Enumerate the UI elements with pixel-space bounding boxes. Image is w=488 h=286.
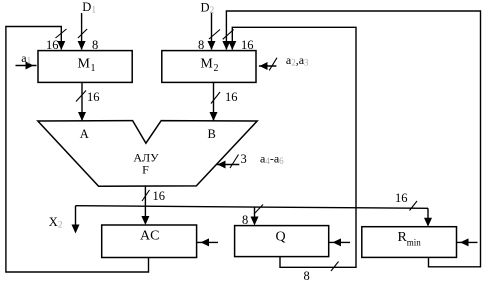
svg-text:16: 16 bbox=[395, 191, 408, 205]
svg-text:16: 16 bbox=[225, 90, 238, 104]
svg-text:A: A bbox=[80, 127, 89, 141]
wire Q right control stub bbox=[329, 241, 350, 243]
svg-text:16: 16 bbox=[153, 189, 166, 203]
register Rmin bbox=[362, 227, 457, 258]
slash on feedback wires into M2 bbox=[223, 30, 234, 40]
svg-text:min: min bbox=[407, 238, 422, 248]
wire AC input branch bbox=[144, 206, 146, 218]
svg-text:8: 8 bbox=[242, 213, 248, 227]
arrowhead a2,a3 into M2 bbox=[260, 62, 268, 70]
wire Rmin right control stub bbox=[457, 241, 478, 243]
arrowhead D1 into M1 bbox=[78, 41, 86, 50]
arrowhead 16-bit into M1 bbox=[57, 41, 65, 50]
svg-text:8: 8 bbox=[304, 269, 310, 283]
wire Rmin input branch bbox=[427, 208, 429, 219]
slash on Q feedback 8-bit wire bbox=[331, 262, 339, 272]
svg-text:1: 1 bbox=[91, 63, 96, 74]
wire ALU a4-a6 control input bbox=[217, 164, 239, 166]
svg-text:16: 16 bbox=[87, 90, 100, 104]
wire AC right control stub bbox=[197, 241, 218, 243]
wire D2 input bbox=[211, 13, 213, 50]
arrowhead M2 output into ALU B bbox=[210, 112, 218, 121]
wire a2,a3 control input bbox=[259, 65, 277, 67]
slash on a2,a3 wire bbox=[269, 58, 277, 71]
slash on D1 wire bbox=[78, 29, 87, 38]
svg-text:AC: AC bbox=[140, 229, 159, 244]
register AC bbox=[102, 225, 197, 258]
arrowhead control into Q right bbox=[333, 238, 342, 246]
svg-text:8: 8 bbox=[198, 38, 204, 52]
arrowhead ALU result into AC bbox=[141, 216, 149, 225]
slash on ALU output bbox=[142, 190, 150, 201]
register M1 bbox=[38, 51, 132, 83]
arrowhead control into AC right bbox=[201, 238, 210, 246]
arrowhead Rmin-feedback into M2 bbox=[222, 41, 230, 50]
wire M1 output to ALU A bbox=[81, 82, 83, 120]
wire result bus bbox=[76, 206, 429, 209]
slash on M1 output bbox=[76, 91, 86, 102]
svg-text:16: 16 bbox=[241, 38, 254, 52]
svg-text:3: 3 bbox=[241, 152, 247, 166]
wire ALU F output bbox=[144, 186, 146, 206]
wire M2 output to ALU B bbox=[213, 82, 215, 120]
arrowhead result into Rmin bbox=[424, 218, 432, 227]
slash on a4-a6 wire bbox=[230, 155, 239, 169]
arrowhead a4-a6 into ALU bbox=[218, 161, 226, 169]
register Q bbox=[235, 226, 329, 257]
slash on Q input branch bbox=[254, 205, 263, 215]
svg-text:M: M bbox=[78, 56, 91, 71]
arrowhead a1 into M1 bbox=[26, 62, 34, 70]
arrowhead Q-feedback into M2 bbox=[228, 41, 236, 50]
wire Q input branch bbox=[254, 207, 256, 219]
wire a1 control input bbox=[16, 65, 37, 67]
wire AC-feedback loop (AC out -> left -> up -> M1 16-bit input) bbox=[6, 27, 149, 273]
slash on D2 wire bbox=[209, 30, 220, 40]
svg-text:M: M bbox=[200, 56, 213, 71]
wire Q-feedback loop (Q out -> right -> up -> M2 8-bit input) bbox=[232, 27, 356, 267]
slash on M2 output bbox=[211, 92, 220, 104]
register M2 bbox=[162, 51, 256, 83]
slash on 16-bit wire into M1 bbox=[56, 29, 67, 38]
svg-text:F: F bbox=[142, 162, 149, 176]
arrowhead result into Q bbox=[251, 217, 259, 226]
wire D1 input bbox=[81, 13, 83, 50]
wire X2 branch bbox=[75, 206, 77, 226]
wire Rmin-feedback loop (Rmin out -> right -> up -> M2 16-bit input) bbox=[226, 11, 480, 267]
svg-text:2: 2 bbox=[214, 63, 219, 74]
arrowhead D2 into M2 bbox=[208, 41, 216, 50]
ALU (АЛУ) trapezoid bbox=[38, 121, 257, 187]
svg-text:Q: Q bbox=[276, 230, 286, 245]
svg-text:16: 16 bbox=[46, 38, 59, 52]
arrowhead M1 output into ALU A bbox=[78, 112, 86, 121]
arrowhead X2 output bbox=[72, 225, 80, 234]
arrowhead control into Rmin right bbox=[460, 238, 469, 246]
svg-text:8: 8 bbox=[92, 38, 98, 52]
svg-text:B: B bbox=[208, 127, 216, 141]
slash on bus near Rmin bbox=[410, 201, 418, 211]
